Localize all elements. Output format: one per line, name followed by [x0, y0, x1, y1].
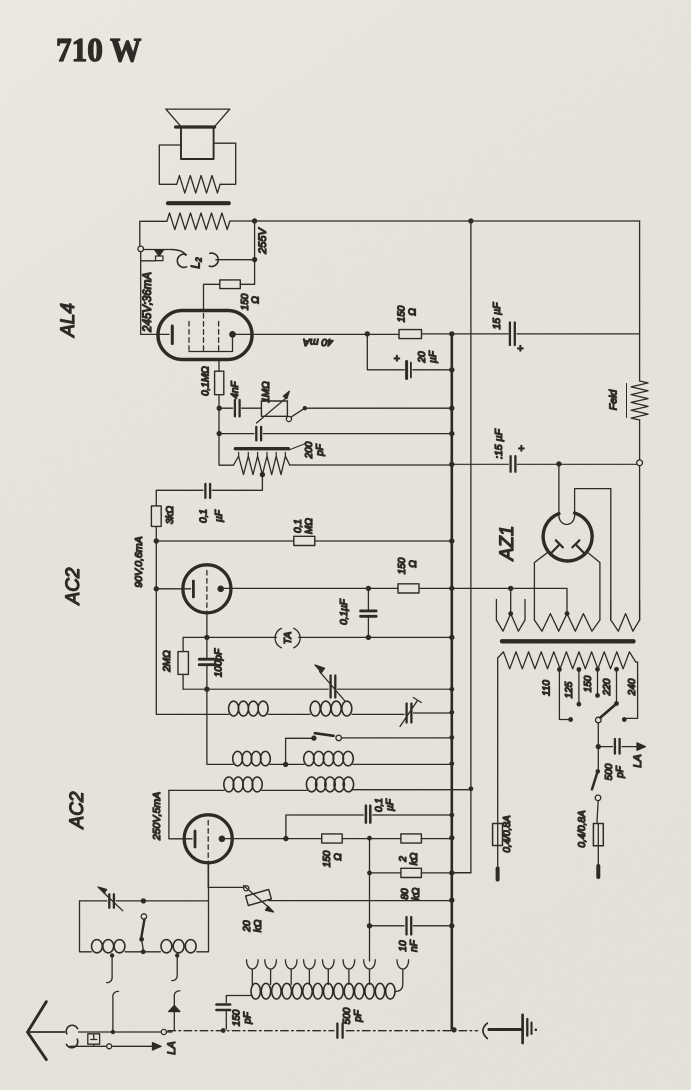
svg-text:0,1: 0,1 [374, 798, 385, 812]
svg-text:0,1: 0,1 [293, 519, 304, 533]
svg-text:0,1: 0,1 [199, 509, 210, 523]
svg-text:200: 200 [304, 441, 315, 459]
mains taps [557, 667, 562, 672]
wire heater center tap rail [452, 588, 567, 613]
wire LA line [70, 1045, 152, 1047]
svg-text:µF: µF [385, 798, 396, 811]
speaker LS cone [166, 109, 230, 127]
svg-text:Ω: Ω [251, 296, 262, 304]
connector hooks antenna [66, 1025, 77, 1034]
svg-text:2: 2 [398, 856, 409, 863]
tube AL4 envelope [158, 311, 252, 360]
svg-text:220: 220 [602, 678, 613, 696]
svg-text:255V: 255V [257, 226, 269, 254]
svg-text:1MΩ: 1MΩ [261, 381, 272, 403]
AZ1 anodes [550, 540, 563, 554]
svg-text:250V,5mA: 250V,5mA [151, 792, 163, 841]
ground earth symbol [521, 1015, 524, 1043]
winding heater main [534, 614, 600, 632]
wire bus joins [452, 872, 471, 874]
resistor 150 Ohm screen [220, 280, 241, 289]
wire secondary bus vertical [470, 221, 472, 873]
wire 255V rail [230, 220, 640, 222]
antenna chevron [28, 1002, 47, 1060]
wire AVC vertical [369, 838, 371, 961]
wire row C to AC2 second [169, 790, 184, 838]
AZ1 filament loop [559, 516, 575, 525]
speaker voice coil [181, 128, 214, 159]
wire row A [157, 713, 452, 714]
earth connector chevron [483, 1023, 487, 1038]
svg-text:pF: pF [243, 1011, 254, 1025]
wire 20uF loop [367, 334, 452, 370]
inductor row C coils [224, 777, 234, 792]
inductor row B coils [233, 751, 243, 765]
svg-text:TA: TA [282, 632, 294, 645]
svg-text:100pF: 100pF [214, 648, 225, 677]
capacitor 15uF top [510, 323, 515, 346]
wire right bus top [639, 221, 641, 381]
wire antenna box sides/bottom [80, 863, 209, 952]
terminal circle [138, 246, 144, 252]
capacitor 10nF [370, 925, 452, 927]
resistor speaker winding [177, 176, 220, 194]
capacitor 0,1uF detector [286, 815, 452, 839]
svg-text:Ω: Ω [333, 853, 344, 861]
capacitor 100pF [206, 637, 208, 689]
svg-text:0,1MΩ: 0,1MΩ [201, 366, 212, 396]
svg-text:pF: pF [315, 443, 326, 457]
wire 240 lead [627, 662, 638, 718]
svg-text:AZ1: AZ1 [497, 526, 518, 562]
capacitor 0,1uF interstage [367, 588, 369, 637]
wire node down to screen resistor [240, 221, 254, 284]
AC2 grid dashed [206, 571, 208, 612]
svg-text:LA: LA [166, 1041, 178, 1054]
switch band [286, 738, 312, 764]
winding mains primary [498, 652, 636, 669]
arrester bowtie [169, 1006, 180, 1012]
resistor 2 kOhm [401, 834, 422, 843]
capacitor 150pF [217, 1005, 231, 1011]
svg-text:4nF: 4nF [230, 380, 241, 398]
capacitor 500pF mains [598, 746, 636, 748]
switch antenna [141, 914, 146, 919]
inductor oscillator coil [251, 983, 260, 999]
svg-text:0,1µF: 0,1µF [339, 598, 350, 625]
wire resistor to screen grid [204, 284, 220, 310]
speaker magnet bar [168, 201, 229, 205]
resistor 0,1 MOhm grid [215, 371, 224, 395]
resistor 150 Ohm AC2 anode [398, 584, 419, 593]
capacitor 4nF [235, 400, 240, 416]
wire 200pF row [219, 433, 452, 435]
inductor output transformer primary [167, 213, 230, 230]
svg-text:2MΩ: 2MΩ [162, 650, 173, 673]
svg-text:150: 150 [322, 850, 333, 867]
svg-text:Ω: Ω [408, 308, 419, 316]
svg-text:pF: pF [615, 765, 626, 779]
AL4 cathode [158, 333, 169, 335]
AL4 anode [229, 331, 236, 338]
svg-text:+: + [517, 343, 524, 355]
svg-text:710 W: 710 W [56, 32, 142, 69]
coil tap hooks [247, 960, 259, 985]
svg-text:+: + [518, 443, 525, 455]
svg-text:240: 240 [627, 678, 638, 696]
resistor 0,1 MOhm row [294, 536, 315, 545]
svg-text:20: 20 [417, 351, 428, 364]
svg-text:MΩ: MΩ [304, 518, 315, 534]
AL4 grids dashed [189, 314, 219, 352]
svg-text:150: 150 [232, 1009, 243, 1026]
wire AL4 anode rail [233, 333, 400, 335]
svg-text:Feld: Feld [608, 389, 620, 411]
wire row C [169, 789, 471, 792]
wire AZ1 filament top [558, 464, 560, 516]
wire 4nF row [219, 407, 452, 409]
AC2-2 anode [219, 836, 226, 843]
svg-text:150: 150 [397, 305, 408, 322]
resistor tone zigzag [219, 464, 233, 466]
AL4 grid bracket [189, 338, 233, 352]
switch voltage selector [600, 705, 615, 718]
inductor antenna coils [92, 940, 103, 953]
tube AC2 first [183, 565, 231, 613]
wire feedback row [183, 688, 452, 690]
capacitor 0,1uF AL4 grid coupling [205, 484, 210, 498]
svg-text:500: 500 [342, 1007, 353, 1024]
svg-text:AC2: AC2 [67, 791, 88, 829]
svg-text:20: 20 [242, 920, 253, 933]
svg-text:3kΩ: 3kΩ [165, 506, 176, 525]
svg-text:kΩ: kΩ [409, 852, 420, 865]
wire AZ1 filament leads [534, 552, 548, 620]
svg-text:LA: LA [632, 754, 644, 767]
svg-text:Ω: Ω [408, 560, 419, 568]
svg-text:40 mA: 40 mA [303, 336, 333, 348]
capacitor 20uF electrolytic [405, 362, 408, 379]
inductor row A coils [229, 701, 239, 716]
wire tone row to bus [290, 464, 452, 466]
resistor 3kOhm [151, 506, 161, 527]
tone switch triangle [143, 249, 171, 251]
wire tone tap [260, 472, 265, 477]
winding heater AZ1 [496, 600, 525, 621]
wire 15uF lower row [452, 463, 637, 465]
svg-text:µF: µF [428, 350, 439, 363]
svg-text:150: 150 [240, 293, 251, 310]
wire cathode bus AC2 [155, 541, 157, 714]
svg-text:kΩ: kΩ [253, 919, 264, 932]
transformer core [502, 639, 634, 643]
wire coil taps with hooks [110, 953, 114, 957]
potentiometer 20 kOhm [208, 863, 243, 888]
wire right bus to AZ1 junction [639, 420, 641, 460]
svg-text::15 µF: :15 µF [493, 428, 505, 459]
fuse right 0,4/0,8A [593, 824, 603, 846]
arrester box [88, 1034, 100, 1044]
capacitor antenna trimmer [109, 894, 114, 907]
inductor L2 arcs [172, 250, 186, 256]
wire coupling cap to 3k [156, 490, 203, 506]
wire earth lead [489, 1028, 521, 1031]
wire 0.1M row [156, 540, 452, 542]
wire rail to right bus [422, 333, 509, 335]
resistor 150 Ohm anode rail [399, 330, 422, 339]
capacitor 500pF earth [337, 1024, 342, 1038]
wire antenna line [79, 1031, 162, 1033]
resistor 2 MOhm [182, 637, 184, 651]
capacitor variable tuning [331, 676, 336, 698]
svg-text:500: 500 [604, 763, 615, 780]
svg-text:80: 80 [400, 888, 411, 900]
svg-text:µF: µF [214, 509, 225, 522]
svg-text:+: + [394, 353, 401, 365]
svg-text:245V;36mA: 245V;36mA [142, 272, 154, 333]
capacitor 15uF lower [511, 456, 516, 472]
switch mains on/off [597, 747, 599, 770]
wire AL4 grid down [218, 360, 220, 372]
wire row B [207, 689, 452, 764]
tube AC2 second [184, 815, 232, 863]
AC2-2 cathode [184, 838, 192, 840]
leader line 200pF [289, 444, 306, 451]
svg-text:AC2: AC2 [63, 567, 84, 605]
tube AZ1 envelope [543, 513, 592, 561]
svg-text:150: 150 [397, 557, 408, 574]
resistor Feld field coil [631, 381, 648, 420]
potentiometer 1 MOhm [261, 401, 287, 416]
svg-text:0,4/0,8A: 0,4/0,8A [577, 810, 588, 848]
wire primary left lead / fuse [497, 658, 499, 824]
AC2-2 grid dashed [207, 821, 209, 862]
svg-text:0,4/0,8A: 0,4/0,8A [502, 815, 513, 853]
wire L2 to node [216, 259, 255, 261]
svg-text:10: 10 [398, 940, 409, 952]
wire antenna box top [80, 900, 209, 902]
wire chassis dash line [168, 1030, 478, 1032]
svg-text:90V,0,6mA: 90V,0,6mA [133, 536, 145, 587]
wire cathode line 245V [141, 252, 158, 335]
svg-text:nF: nF [409, 939, 420, 952]
wire TA row [183, 636, 452, 638]
wire AC2 anode rail [221, 587, 398, 589]
wire pot to bus [269, 900, 452, 902]
wire transformer left lead to terminal [140, 221, 167, 246]
svg-text:125: 125 [564, 681, 575, 698]
svg-text:pF: pF [353, 1009, 364, 1023]
svg-text:110: 110 [542, 680, 553, 696]
svg-text:150: 150 [583, 675, 594, 692]
wire main bus vertical (chassis) [450, 334, 453, 1030]
capacitor trimmer row A [407, 704, 412, 723]
AC2 anode [217, 586, 224, 593]
svg-text:15 µF: 15 µF [491, 302, 503, 330]
resistor 80 kOhm [370, 872, 401, 874]
wire speaker loop [159, 143, 235, 184]
winding rectifier right [611, 601, 640, 620]
svg-text:AL4: AL4 [58, 303, 79, 338]
wire AC2-2 anode rail [222, 838, 322, 840]
connector TA [275, 628, 300, 648]
resistor 150 Ohm AC2-2 [322, 834, 343, 843]
capacitor 200pF [256, 427, 261, 441]
capacitor tone plate [235, 447, 288, 450]
wire antenna lead [30, 1031, 65, 1033]
svg-text:kΩ: kΩ [411, 887, 422, 900]
AC2 cathode [156, 588, 190, 590]
